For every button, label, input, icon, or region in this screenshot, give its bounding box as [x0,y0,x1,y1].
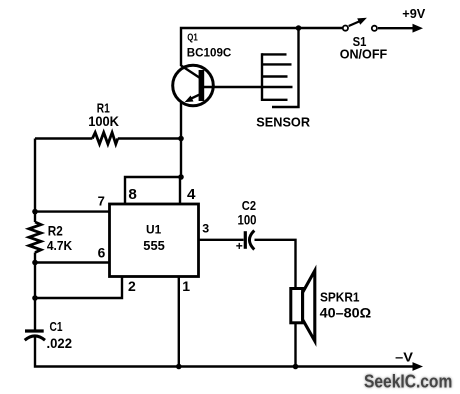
node: pin1/rail junction [176,364,182,370]
wire: pin 1 down to rail [178,277,180,367]
wire: pin 2 [35,277,122,298]
svg-text:7: 7 [98,194,105,209]
wire: C2 to speaker vertical [255,240,296,289]
node: pin6 junction [32,260,38,266]
svg-text:100K: 100K [88,113,119,129]
resistor R1 [35,133,181,145]
svg-text:+: + [236,239,243,253]
speaker SPKR1 [291,271,315,341]
wire: collector vertical + top supply rail [181,28,342,66]
svg-text:.022: .022 [47,335,73,351]
svg-text:SPKR1: SPKR1 [320,290,360,305]
wire: R2 bottom to pin6 junction [34,253,36,263]
wire: +9V arrow [378,24,423,33]
capacitor C1 [25,331,45,340]
svg-text:R2: R2 [48,224,63,239]
svg-text:SENSOR: SENSOR [256,114,310,129]
svg-text:BC109C: BC109C [187,45,232,59]
svg-text:C1: C1 [50,320,63,334]
svg-text:SeekIC.com: SeekIC.com [364,372,452,392]
node: speaker/rail junction [293,364,299,370]
svg-text:8: 8 [128,186,136,203]
resistor R2 [29,222,41,253]
node: pin7 junction [32,209,38,215]
wire: emitter vertical down to pins 8/4 link [180,103,182,177]
svg-text:6: 6 [98,246,106,261]
switch S1 [343,18,377,31]
svg-text:4: 4 [187,186,196,203]
svg-text:3: 3 [202,222,209,236]
wire: -V arrow [413,362,424,371]
svg-text:100: 100 [238,213,257,228]
capacitor C2 [245,231,254,250]
node: R1/emitter junction [178,136,184,142]
svg-text:4.7K: 4.7K [47,238,73,253]
svg-text:C2: C2 [242,198,256,213]
svg-text:Q1: Q1 [187,32,198,44]
wire: pin 8 / pin 4 top link [125,177,180,204]
node: emitter/pin4 junction [178,174,184,180]
svg-text:2: 2 [128,278,136,294]
wire: base line from Q1 to sensor [204,86,293,88]
op-amp U1 555 IC box [110,204,199,277]
wire: left vertical down to C1 [34,298,36,332]
svg-text:1: 1 [182,278,190,294]
svg-text:–V: –V [395,350,413,365]
node: pin2 junction [32,295,38,301]
wire: C1 bottom to ground rail [35,337,416,367]
sensor electrode symbol [262,28,299,107]
svg-text:40–80Ω: 40–80Ω [320,305,372,321]
svg-text:ON/OFF: ON/OFF [340,47,388,62]
wire: pin 3 to C2 [199,239,244,241]
svg-text:U1: U1 [146,223,161,237]
svg-text:555: 555 [143,238,165,253]
node: sensor-to-rail junction [296,25,302,31]
svg-text:+9V: +9V [402,6,425,21]
wire: speaker to rail [294,323,296,367]
wire: left vertical from R1 down to R2 [34,139,36,223]
wire: pin 6 [35,261,110,263]
wire: pin 7 [35,210,110,212]
wire: left vertical pin6 to pin2 junction [34,263,36,299]
transistor Q1 [173,65,214,106]
